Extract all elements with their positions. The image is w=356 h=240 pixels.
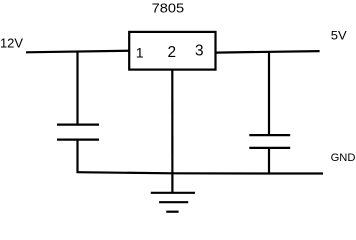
- capacitor C2 bottom plate: [249, 147, 290, 149]
- ground symbol bar 3: [166, 211, 178, 213]
- svg-text:12V: 12V: [0, 35, 23, 50]
- svg-text:3: 3: [195, 43, 204, 60]
- wire U1 pin 3 to 5V output: [216, 51, 320, 53]
- svg-text:5V: 5V: [331, 29, 347, 43]
- wire 12V input to U1 pin 1: [26, 51, 129, 53]
- wire U1 pin 2 to ground stem: [171, 70, 173, 192]
- ground symbol bar 1: [151, 192, 195, 194]
- regulator U1 body: [129, 32, 215, 70]
- svg-text:GND: GND: [331, 152, 356, 164]
- wire output node to C2 top: [268, 52, 270, 135]
- ground symbol bar 2: [159, 201, 188, 203]
- wire input node to C1 top: [76, 52, 78, 125]
- capacitor C2 top plate: [249, 134, 290, 136]
- svg-text:7805: 7805: [152, 1, 185, 16]
- capacitor C1 bottom plate: [57, 139, 99, 141]
- svg-text:2: 2: [168, 44, 177, 61]
- svg-text:1: 1: [136, 45, 144, 61]
- wire C2 bottom to ground bus: [268, 148, 270, 174]
- wire ground bus horizontal: [77, 172, 324, 173]
- wire C1 bottom to ground bus: [76, 140, 78, 173]
- capacitor C1 top plate: [57, 123, 99, 125]
